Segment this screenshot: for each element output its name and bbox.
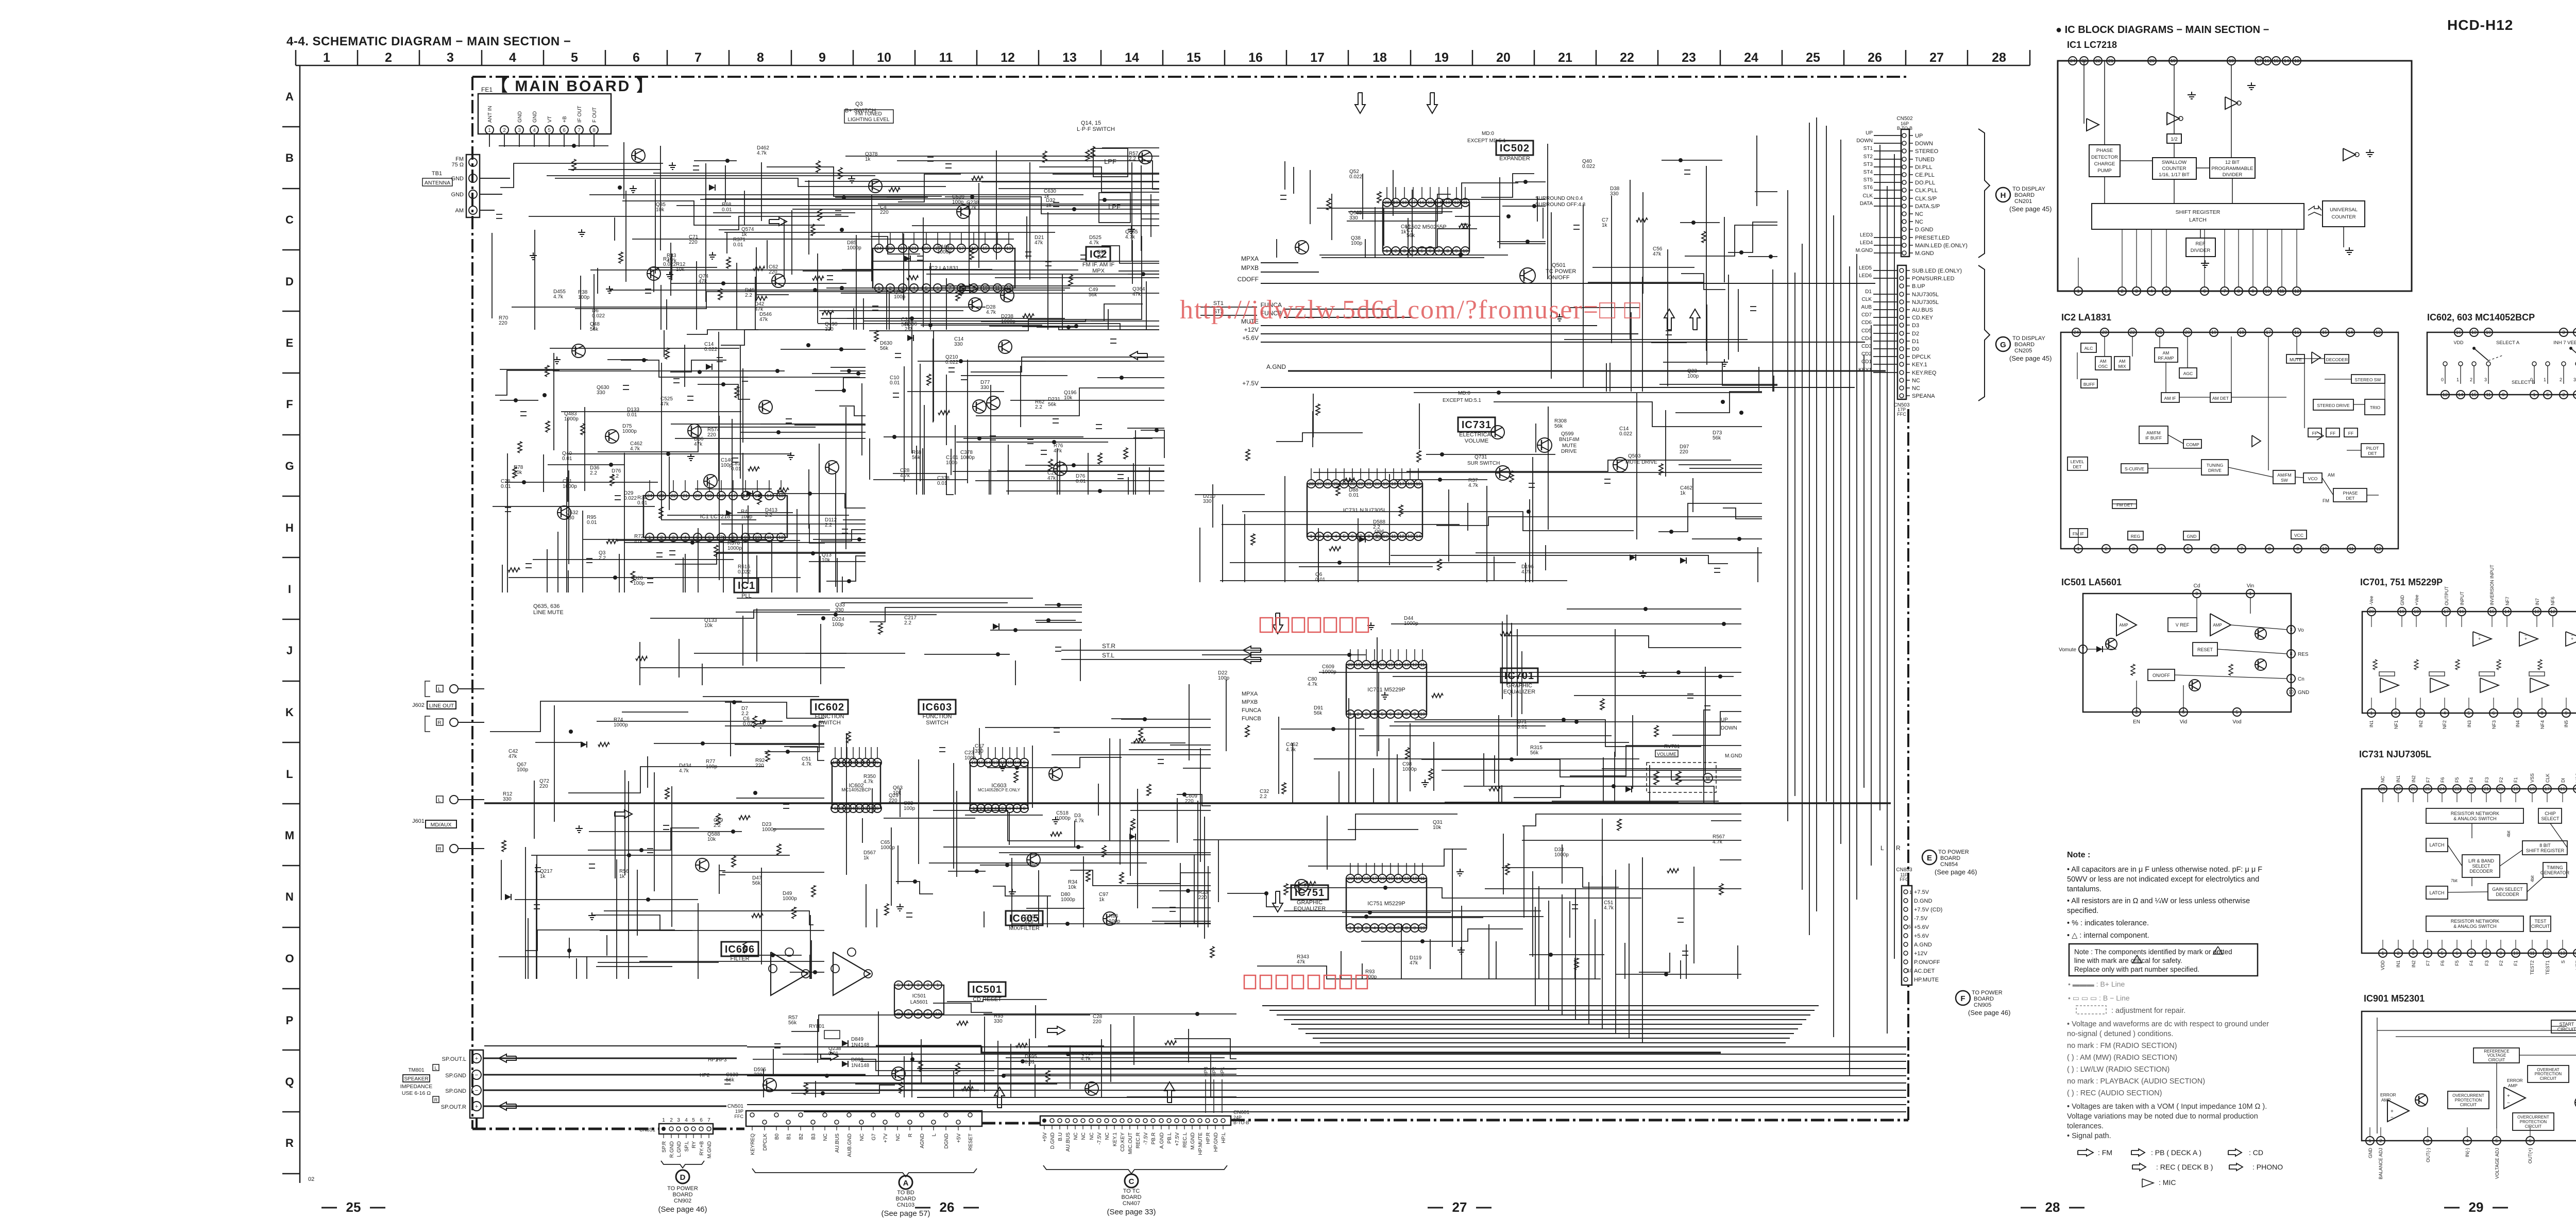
svg-text:100p: 100p	[706, 764, 718, 770]
svg-text:EN: EN	[2133, 719, 2140, 725]
svg-text:IC701, 751 M5229P: IC701, 751 M5229P	[2360, 577, 2443, 587]
svg-text:BOARD: BOARD	[2014, 192, 2035, 198]
svg-text:17: 17	[2257, 58, 2262, 63]
svg-text:A.GND: A.GND	[1266, 363, 1286, 370]
svg-text:12: 12	[778, 535, 784, 540]
svg-text:12: 12	[2376, 546, 2381, 551]
svg-text:BOARD: BOARD	[2014, 342, 2035, 348]
svg-text:12: 12	[1399, 534, 1404, 539]
svg-text:REF: REF	[2196, 241, 2206, 247]
svg-text:100p: 100p	[964, 755, 976, 761]
svg-text:NC: NC	[1089, 1132, 1095, 1140]
svg-text:7: 7	[1437, 248, 1440, 253]
svg-text:HP.L: HP.L	[1221, 1132, 1227, 1143]
svg-text:9: 9	[1023, 760, 1025, 765]
svg-text:25: 25	[346, 1199, 361, 1215]
svg-text:BOARD: BOARD	[1940, 855, 1960, 861]
svg-text:FM TUNED: FM TUNED	[855, 111, 882, 117]
svg-text:4: 4	[2150, 289, 2153, 294]
svg-text:MUTE: MUTE	[2290, 357, 2302, 362]
svg-text:100p: 100p	[721, 463, 733, 468]
svg-text:5: 5	[2187, 546, 2189, 551]
svg-text:13: 13	[1408, 534, 1413, 539]
svg-text:RESISTOR NETWORK: RESISTOR NETWORK	[2451, 919, 2499, 924]
svg-text:S-CURVE: S-CURVE	[2125, 466, 2144, 471]
svg-text:CN205: CN205	[2014, 348, 2032, 354]
svg-text:16: 16	[2459, 609, 2464, 614]
svg-text:FF: FF	[2348, 431, 2353, 436]
svg-text:24P: 24P	[1233, 1115, 1242, 1120]
svg-text:LPF: LPF	[1108, 203, 1121, 211]
svg-text:9: 9	[876, 760, 878, 765]
svg-text:20: 20	[924, 246, 929, 251]
svg-text:12 BIT: 12 BIT	[2225, 160, 2240, 165]
svg-text:100p: 100p	[578, 295, 590, 300]
svg-text:RESET: RESET	[968, 1133, 974, 1150]
svg-text:4: 4	[533, 128, 536, 133]
svg-text:FFC: FFC	[1897, 412, 1906, 417]
svg-text:A: A	[285, 90, 294, 103]
svg-text:CIRCUIT: CIRCUIT	[2540, 1076, 2557, 1081]
svg-text:R: R	[1896, 844, 1901, 852]
svg-text:10k: 10k	[1433, 825, 1442, 831]
svg-text:M.GND: M.GND	[1190, 1132, 1196, 1149]
svg-text:J601: J601	[412, 818, 425, 824]
svg-text:TO POWER: TO POWER	[667, 1186, 698, 1192]
svg-text:AM: AM	[455, 208, 464, 214]
svg-text:10: 10	[1907, 968, 1912, 973]
svg-text:8: 8	[1023, 806, 1025, 811]
svg-text:B: B	[285, 151, 294, 164]
svg-text:5: 5	[692, 1118, 695, 1123]
svg-text:DO.PLL: DO.PLL	[1915, 180, 1935, 186]
svg-text:CN905: CN905	[1974, 1002, 1991, 1008]
svg-text:: REC ( DECK B ): : REC ( DECK B )	[2156, 1163, 2213, 1171]
svg-text:1N4148: 1N4148	[851, 1063, 869, 1069]
svg-text:330: 330	[754, 1072, 762, 1078]
svg-text:Vin: Vin	[2247, 583, 2254, 589]
svg-text:KEY.REQ: KEY.REQ	[1912, 370, 1937, 376]
svg-text:56k: 56k	[590, 327, 599, 332]
svg-text:ST4: ST4	[1863, 170, 1873, 175]
svg-text:• ▭ ▭ ▭ : B − Line: • ▭ ▭ ▭ : B − Line	[2068, 994, 2130, 1002]
svg-text:1: 1	[2544, 377, 2546, 382]
svg-text:14: 14	[1396, 876, 1401, 881]
svg-text:22: 22	[2095, 58, 2100, 63]
svg-text:1000p: 1000p	[960, 455, 975, 461]
svg-text:RF.AMP: RF.AMP	[2158, 355, 2174, 361]
svg-text:VSS: VSS	[2530, 773, 2535, 783]
svg-text:F7: F7	[2426, 960, 2431, 966]
svg-text:19: 19	[2171, 58, 2176, 63]
svg-text:D1: D1	[1912, 338, 1919, 345]
svg-text:20: 20	[2149, 58, 2155, 63]
svg-text:0.01: 0.01	[627, 412, 637, 418]
svg-text:2: 2	[2562, 392, 2565, 397]
svg-text:AM: AM	[2100, 359, 2107, 364]
svg-text:1: 1	[2533, 392, 2535, 397]
svg-text:TUNED: TUNED	[1915, 157, 1935, 163]
svg-text:IN2: IN2	[2418, 720, 2424, 727]
svg-text:IN5: IN5	[2564, 720, 2569, 727]
svg-text:7: 7	[2223, 289, 2226, 294]
svg-text:0.01: 0.01	[1349, 493, 1359, 498]
svg-text:10: 10	[2265, 289, 2270, 294]
svg-text:DRIVE: DRIVE	[1561, 449, 1577, 454]
svg-text:4.7k: 4.7k	[1713, 839, 1723, 845]
svg-text:100p: 100p	[1218, 675, 1230, 681]
svg-text:DI: DI	[2561, 778, 2566, 783]
svg-text:IF BUFF: IF BUFF	[2145, 435, 2162, 441]
svg-text:HP3: HP3	[717, 1057, 727, 1063]
svg-text:1/16, 1/17 BIT: 1/16, 1/17 BIT	[2159, 172, 2190, 178]
svg-text:3: 3	[2426, 1138, 2429, 1143]
svg-text:PHASE: PHASE	[2343, 490, 2358, 496]
svg-text:1k: 1k	[1099, 897, 1105, 903]
svg-text:AM/FM: AM/FM	[2277, 472, 2291, 478]
svg-text:9: 9	[2251, 289, 2254, 294]
svg-text:KEY.1: KEY.1	[1112, 1132, 1118, 1146]
svg-text:MD/AUX: MD/AUX	[431, 822, 452, 828]
svg-text:IC701 M5229P: IC701 M5229P	[1367, 687, 1405, 693]
svg-text:12: 12	[2545, 951, 2550, 956]
svg-text:IN(-): IN(-)	[2465, 1148, 2470, 1157]
svg-text:B3: B3	[811, 1133, 817, 1140]
svg-text:LA5601: LA5601	[910, 1000, 928, 1005]
svg-text:0.022: 0.022	[1582, 164, 1595, 170]
svg-text:4.7k: 4.7k	[1521, 569, 1532, 575]
svg-text:USE 6-16 Ω: USE 6-16 Ω	[402, 1090, 431, 1096]
svg-text:SP.OUT.R: SP.OUT.R	[441, 1104, 466, 1110]
svg-text:10k: 10k	[704, 623, 713, 629]
svg-text:56k: 56k	[752, 881, 761, 886]
svg-text:100p: 100p	[952, 199, 964, 205]
svg-text:D.GND: D.GND	[1914, 898, 1933, 904]
svg-text:10: 10	[2513, 951, 2518, 956]
svg-text:OSC: OSC	[2098, 364, 2108, 369]
svg-text:47k: 47k	[1132, 292, 1141, 297]
svg-text:REC.R: REC.R	[1136, 1132, 1141, 1148]
svg-text:EXPANDER: EXPANDER	[1499, 156, 1530, 162]
svg-text:VDD: VDD	[2453, 340, 2464, 345]
svg-text:330: 330	[975, 749, 984, 754]
svg-text:-7.5V: -7.5V	[1914, 916, 1928, 922]
svg-text:F1: F1	[2513, 777, 2518, 783]
svg-text:PROTECTION: PROTECTION	[2455, 1098, 2482, 1103]
svg-text:2.2: 2.2	[1129, 156, 1136, 162]
svg-text:(See page 45): (See page 45)	[2009, 354, 2052, 362]
svg-text:: PHONO: : PHONO	[2252, 1163, 2283, 1171]
svg-text:IN1: IN1	[2396, 960, 2401, 968]
svg-text:15: 15	[2322, 330, 2327, 335]
svg-text:COUNTER: COUNTER	[2162, 166, 2187, 172]
svg-text:TO DISPLAY: TO DISPLAY	[2012, 335, 2045, 342]
svg-text:AUB: AUB	[1861, 304, 1872, 310]
svg-text:OUT(+): OUT(+)	[2528, 1148, 2533, 1163]
svg-text:17: 17	[1372, 876, 1377, 881]
svg-text:2.2: 2.2	[1260, 794, 1267, 800]
svg-text:F OUT: F OUT	[592, 107, 598, 123]
svg-text:AMP: AMP	[2381, 1097, 2391, 1103]
svg-text:ST.R: ST.R	[1102, 642, 1115, 650]
svg-text:5: 5	[2165, 289, 2167, 294]
svg-text:5: 5	[1381, 925, 1383, 930]
svg-text:J: J	[286, 644, 293, 657]
svg-text:TO POWER: TO POWER	[1938, 849, 1969, 855]
svg-text:D899: D899	[851, 1057, 863, 1063]
svg-text:INH 7 VEE VSS: INH 7 VEE VSS	[2553, 340, 2576, 346]
svg-text:22: 22	[2130, 330, 2135, 335]
svg-text:F3: F3	[2484, 777, 2489, 783]
svg-text:BOARD: BOARD	[1974, 996, 1994, 1002]
svg-text:IN7: IN7	[2535, 598, 2540, 605]
svg-text:330: 330	[1610, 191, 1619, 197]
svg-text:0.01: 0.01	[1517, 724, 1528, 730]
svg-text:GND: GND	[2400, 595, 2405, 606]
svg-text:+12V: +12V	[1244, 326, 1259, 333]
svg-text:NC: NC	[823, 1133, 828, 1141]
svg-text:DETECTOR: DETECTOR	[2091, 155, 2118, 160]
svg-text:7: 7	[707, 1118, 710, 1123]
svg-text:R: R	[437, 846, 441, 852]
svg-text:Voltage variations may be note: Voltage variations may be noted due to n…	[2067, 1112, 2258, 1121]
svg-text:100p: 100p	[946, 460, 958, 466]
svg-text:VCO: VCO	[2308, 476, 2318, 481]
svg-text:8: 8	[2237, 289, 2240, 294]
svg-text:SELECT: SELECT	[2472, 864, 2490, 869]
svg-text:5: 5	[897, 983, 900, 988]
svg-text:BOARD: BOARD	[895, 1196, 916, 1202]
svg-text:0.01: 0.01	[562, 456, 572, 462]
svg-text:PILOT: PILOT	[2366, 446, 2379, 451]
svg-text:GND: GND	[517, 111, 523, 123]
svg-text:NC: NC	[1912, 385, 1920, 392]
svg-text:47k: 47k	[1047, 476, 1056, 481]
svg-text:LIGHTING LEVEL: LIGHTING LEVEL	[848, 117, 890, 123]
svg-text:2.2: 2.2	[1035, 404, 1042, 410]
svg-text:7: 7	[694, 50, 702, 65]
svg-text:SP.GND: SP.GND	[445, 1088, 466, 1094]
svg-text:+5.6V: +5.6V	[1914, 933, 1929, 939]
svg-text:1: 1	[2370, 710, 2372, 716]
svg-text:47k: 47k	[1297, 959, 1306, 965]
svg-text:24: 24	[647, 493, 652, 498]
svg-text:DOWN: DOWN	[1856, 138, 1873, 144]
svg-text:7: 7	[2470, 951, 2472, 956]
svg-text:Replace only with part number: Replace only with part number specified.	[2074, 966, 2199, 973]
svg-text:6: 6	[2455, 951, 2458, 956]
svg-text:MUTE DRIVE: MUTE DRIVE	[1625, 460, 1657, 465]
svg-text:20: 20	[1384, 200, 1389, 205]
svg-text:(See page 33): (See page 33)	[1107, 1208, 1156, 1216]
svg-text:KEY.1: KEY.1	[1912, 362, 1927, 368]
svg-text:LED4: LED4	[1860, 240, 1873, 246]
svg-text:no-signal ( detuned ) conditio: no-signal ( detuned ) conditions.	[2067, 1030, 2173, 1038]
svg-text:IF OUT: IF OUT	[577, 106, 583, 123]
svg-text:2.2: 2.2	[745, 293, 752, 298]
svg-text:8 BIT: 8 BIT	[2539, 843, 2551, 848]
svg-text:19: 19	[2211, 330, 2216, 335]
svg-text:B.UP: B.UP	[1912, 283, 1925, 290]
svg-text:2.2: 2.2	[590, 470, 597, 476]
svg-text:NC: NC	[1912, 378, 1920, 384]
svg-text:PROTECTION: PROTECTION	[2520, 1120, 2547, 1124]
svg-text:3: 3	[1365, 925, 1367, 930]
svg-text:FE1: FE1	[481, 86, 493, 93]
svg-text:4.7k: 4.7k	[1468, 483, 1479, 488]
svg-text:3: 3	[2290, 627, 2292, 632]
svg-text:24: 24	[2074, 330, 2079, 335]
svg-text:10k: 10k	[676, 267, 685, 273]
svg-text:VOLUME: VOLUME	[1657, 752, 1676, 757]
svg-text:: FM: : FM	[2098, 1148, 2112, 1157]
svg-text:16: 16	[1248, 50, 1263, 65]
svg-text:Q501: Q501	[1552, 262, 1566, 268]
svg-text:1k: 1k	[1044, 194, 1050, 199]
svg-text:E: E	[1927, 854, 1932, 862]
svg-text:2: 2	[385, 50, 392, 65]
svg-text:Q3: Q3	[855, 101, 863, 107]
svg-text:1: 1	[936, 983, 939, 988]
svg-text:Cn: Cn	[2298, 676, 2304, 682]
svg-text:6: 6	[2213, 546, 2216, 551]
svg-text:L.GND: L.GND	[676, 1141, 682, 1157]
svg-text:IC731 NJU7305L: IC731 NJU7305L	[1343, 507, 1386, 514]
svg-text:2: 2	[2397, 951, 2399, 956]
svg-text:● IC BLOCK DIAGRAMS − MAIN SEC: ● IC BLOCK DIAGRAMS − MAIN SECTION −	[2056, 24, 2269, 36]
svg-text:LEVEL: LEVEL	[2071, 459, 2084, 464]
svg-text:4.7k: 4.7k	[679, 768, 689, 774]
svg-text:27: 27	[2396, 786, 2401, 791]
svg-text:4: 4	[2466, 1138, 2468, 1143]
svg-text:CLK: CLK	[2545, 773, 2550, 783]
svg-text:( ) : AM (MW) (RADIO SE: ( ) : AM (MW) (RADIO SECTION)	[2067, 1054, 2177, 1062]
svg-text:DECODER: DECODER	[2326, 357, 2348, 362]
svg-text:(See page 46): (See page 46)	[1935, 868, 1977, 876]
svg-text:• △ : internal component.: • △ : internal component.	[2067, 932, 2149, 940]
svg-text:ANT IN: ANT IN	[487, 106, 493, 123]
svg-text:10k: 10k	[893, 790, 902, 796]
svg-text:15: 15	[982, 246, 988, 251]
svg-text:TO BD: TO BD	[897, 1190, 914, 1196]
svg-text:specified.: specified.	[2067, 907, 2098, 915]
svg-text:IN3: IN3	[2467, 720, 2472, 727]
svg-text:+5V: +5V	[956, 1133, 962, 1143]
svg-text:DIVIDER: DIVIDER	[2223, 172, 2243, 178]
svg-text:F2: F2	[2499, 960, 2504, 966]
svg-text:DATA.S/P: DATA.S/P	[1915, 204, 1940, 210]
svg-text:17: 17	[2444, 609, 2449, 614]
svg-text:1k: 1k	[1401, 229, 1407, 235]
svg-text:1000p: 1000p	[1061, 897, 1075, 903]
svg-text:4.7k: 4.7k	[630, 446, 640, 452]
svg-text:( ) : LW/LW (RADIO SECT: ( ) : LW/LW (RADIO SECTION)	[2067, 1065, 2170, 1074]
svg-text:17: 17	[1399, 481, 1404, 486]
svg-text:IC2 LA1831: IC2 LA1831	[2061, 312, 2111, 323]
svg-text:+7.5V: +7.5V	[1175, 1132, 1180, 1146]
svg-text:FFC: FFC	[735, 1114, 744, 1119]
svg-text:NC: NC	[1105, 1132, 1110, 1140]
svg-text:47k: 47k	[699, 279, 707, 284]
svg-text:IC602, 603 MC14052BCP: IC602, 603 MC14052BCP	[2427, 312, 2535, 323]
svg-text:5: 5	[2495, 1138, 2498, 1143]
svg-text:Note :: Note :	[2067, 851, 2090, 859]
svg-text:100p: 100p	[741, 514, 753, 520]
svg-text:SHIFT REGISTER: SHIFT REGISTER	[2526, 848, 2565, 853]
svg-text:14: 14	[2458, 392, 2463, 397]
svg-text:18: 18	[1402, 200, 1407, 205]
svg-text:B.U: B.U	[1058, 1132, 1063, 1141]
svg-text:0.022: 0.022	[743, 721, 756, 727]
svg-text:C: C	[1129, 1177, 1134, 1186]
svg-text:DPCLK: DPCLK	[762, 1133, 768, 1151]
svg-text:F5: F5	[2454, 960, 2460, 966]
svg-text:22: 22	[671, 493, 676, 498]
svg-text:SP.L: SP.L	[684, 1141, 690, 1152]
svg-text:EXCEPT MD:5.1: EXCEPT MD:5.1	[1443, 398, 1481, 403]
svg-text:1k: 1k	[1046, 203, 1052, 209]
svg-text:IC2 LA1831: IC2 LA1831	[929, 265, 959, 272]
svg-text:4: 4	[1373, 712, 1376, 717]
svg-text:27: 27	[1929, 50, 1944, 65]
svg-text:11: 11	[1463, 200, 1467, 205]
svg-text:http://jdwzlw.5d6d.com/?fromus: http://jdwzlw.5d6d.com/?fromuser=□ □	[1180, 295, 1641, 325]
svg-text:1: 1	[488, 128, 491, 133]
svg-text:20: 20	[2185, 330, 2190, 335]
svg-text:RY801: RY801	[809, 1024, 825, 1029]
svg-text:220: 220	[1198, 895, 1207, 901]
svg-text:OVERCURRENT: OVERCURRENT	[2452, 1093, 2484, 1098]
svg-text:0.01: 0.01	[587, 520, 597, 526]
svg-text:2: 2	[1357, 925, 1359, 930]
svg-text:4.7k: 4.7k	[802, 761, 812, 767]
svg-text:47k: 47k	[660, 401, 669, 407]
svg-text:1: 1	[834, 806, 836, 811]
svg-text:5: 5	[1381, 712, 1383, 717]
svg-text:Q599: Q599	[1561, 431, 1574, 437]
svg-text:10: 10	[1420, 925, 1425, 930]
svg-text:10k: 10k	[707, 837, 716, 842]
svg-text:PON/SURR.LED: PON/SURR.LED	[1912, 276, 1955, 282]
svg-text:Q503: Q503	[1628, 453, 1641, 459]
svg-text:13: 13	[1404, 876, 1409, 881]
svg-text:1000p: 1000p	[564, 416, 579, 422]
svg-text:GRAPHIC: GRAPHIC	[1506, 683, 1532, 689]
svg-text:DOWN: DOWN	[1915, 141, 1933, 147]
svg-text:1: 1	[1310, 534, 1312, 539]
svg-text:TB1: TB1	[432, 171, 442, 177]
svg-text:COUNTER: COUNTER	[2332, 214, 2356, 220]
svg-text:220: 220	[689, 240, 698, 245]
svg-text:3: 3	[2412, 951, 2414, 956]
svg-text:UP: UP	[1721, 717, 1728, 723]
svg-text:17: 17	[2545, 786, 2550, 791]
svg-text:100p: 100p	[1351, 241, 1363, 246]
svg-text:2.2: 2.2	[905, 327, 912, 332]
svg-text:CHIP: CHIP	[2545, 811, 2556, 816]
svg-text:F5: F5	[2454, 777, 2460, 783]
svg-text:F3: F3	[2484, 960, 2489, 966]
svg-text:no mark : PLAYBACK (AUDIO SECT: no mark : PLAYBACK (AUDIO SECTION)	[2067, 1077, 2205, 1086]
svg-text:FM IF. AM IF: FM IF. AM IF	[1082, 262, 1115, 268]
svg-text:+5.6V: +5.6V	[1242, 334, 1259, 342]
svg-text:FF: FF	[2312, 431, 2317, 436]
svg-text:3: 3	[2562, 330, 2565, 335]
svg-text:10: 10	[2322, 546, 2327, 551]
svg-text:!: !	[2217, 949, 2219, 954]
svg-text:1: 1	[323, 50, 330, 65]
svg-text:M.GND: M.GND	[1856, 248, 1873, 253]
